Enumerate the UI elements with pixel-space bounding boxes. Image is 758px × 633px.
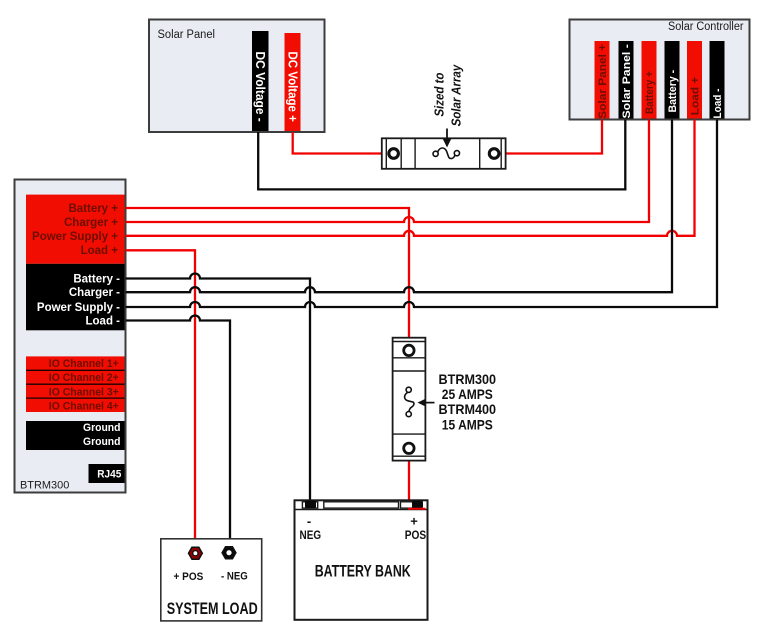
- battery NEG terminal: [305, 501, 316, 509]
- svg-text:Load -: Load -: [86, 316, 121, 328]
- battery POS terminal: [412, 501, 423, 509]
- BTRM negative terminal block: [26, 264, 125, 331]
- wire: BTRM Power Supply+ to controller Load+: [126, 120, 695, 236]
- svg-text:Solar Array: Solar Array: [449, 63, 464, 127]
- BTRM positive terminal block: [26, 195, 125, 264]
- svg-text:IO Channel 4+: IO Channel 4+: [49, 400, 119, 412]
- wire: panel DC- to controller Solar Panel -: [258, 120, 625, 190]
- svg-text:Battery -: Battery -: [73, 274, 120, 286]
- wire: BTRM Charger+ to controller Battery+: [126, 120, 650, 223]
- svg-text:Solar Panel -: Solar Panel -: [621, 44, 633, 119]
- svg-text:NEG: NEG: [300, 530, 322, 542]
- wire: BTRM Charger- to controller Battery-: [126, 120, 673, 293]
- BTRM300 unit box: [15, 180, 126, 493]
- svg-text:Solar Controller: Solar Controller: [668, 21, 744, 33]
- svg-text:BTRM400: BTRM400: [439, 401, 497, 417]
- svg-text:Solar Panel: Solar Panel: [158, 29, 216, 41]
- svg-text:Ground: Ground: [83, 436, 121, 448]
- terminal bar DC Voltage +: [285, 33, 301, 131]
- battery bank: [295, 500, 428, 620]
- fuse F1 solar array fuse: [382, 138, 506, 169]
- svg-text:+ POS: + POS: [174, 571, 204, 583]
- svg-text:Power Supply -: Power Supply -: [37, 302, 120, 314]
- system load: [161, 539, 262, 621]
- svg-text:Battery +: Battery +: [68, 203, 118, 215]
- svg-text:POS: POS: [405, 530, 427, 542]
- label: BTRM300 25 AMPS BTRM400 15 AMPS: [418, 371, 497, 432]
- svg-text:Ground: Ground: [83, 422, 121, 434]
- svg-text:RJ45: RJ45: [97, 469, 121, 481]
- wire: BTRM Power Supply- to controller Load-: [126, 120, 718, 308]
- solar controller box: [570, 20, 750, 120]
- terminal bar Solar Panel +: [595, 41, 610, 119]
- svg-text:Sized to: Sized to: [432, 71, 447, 117]
- svg-text:BATTERY BANK: BATTERY BANK: [315, 563, 411, 581]
- svg-text:Battery +: Battery +: [644, 71, 656, 114]
- svg-text:BTRM300: BTRM300: [20, 480, 69, 492]
- terminal bar Load +: [687, 41, 702, 119]
- svg-text:- NEG: - NEG: [221, 571, 248, 583]
- wire: fuse to controller Solar Panel +: [506, 120, 602, 154]
- terminal bar DC Voltage -: [252, 31, 269, 131]
- svg-text:IO Channel 2+: IO Channel 2+: [49, 372, 119, 384]
- solar panel box: [149, 20, 325, 133]
- svg-text:-: -: [307, 514, 311, 529]
- terminal bar Battery +: [642, 41, 657, 119]
- svg-text:IO Channel 3+: IO Channel 3+: [49, 386, 119, 398]
- terminal bar Battery -: [665, 41, 680, 119]
- fuse F2 battery fuse: [393, 338, 426, 461]
- wire: BTRM Load+ to system load POS: [126, 250, 196, 547]
- RJ45 port: [89, 464, 125, 483]
- system load NEG terminal: [222, 547, 236, 559]
- terminal bar Load -: [710, 41, 725, 119]
- BTRM ground block: [26, 421, 125, 450]
- svg-text:Load +: Load +: [81, 245, 119, 257]
- wire: panel DC+ to fuse: [293, 132, 382, 154]
- wire: BTRM Load- to system load NEG: [126, 316, 231, 548]
- svg-text:SYSTEM LOAD: SYSTEM LOAD: [167, 600, 258, 618]
- system load POS terminal: [189, 547, 203, 559]
- svg-text:15 AMPS: 15 AMPS: [442, 416, 493, 432]
- svg-text:Charger +: Charger +: [64, 217, 118, 229]
- svg-text:DC Voltage -: DC Voltage -: [253, 52, 267, 122]
- svg-text:DC Voltage +: DC Voltage +: [286, 52, 300, 122]
- svg-text:IO Channel 1+: IO Channel 1+: [49, 358, 119, 370]
- svg-text:+: +: [410, 514, 418, 529]
- label: Sized to Solar Array: [432, 63, 464, 148]
- svg-text:Charger -: Charger -: [69, 287, 120, 299]
- svg-text:25 AMPS: 25 AMPS: [442, 386, 493, 402]
- terminal bar Solar Panel -: [619, 41, 634, 119]
- BTRM IO channel block: [26, 356, 125, 412]
- svg-text:BTRM300: BTRM300: [439, 371, 497, 387]
- wire: BTRM Battery+ to battery fuse: [126, 208, 410, 338]
- svg-text:Solar Panel +: Solar Panel +: [597, 43, 609, 118]
- wire: battery fuse to battery bank POS: [408, 461, 410, 508]
- wire: BTRM Battery- to battery bank NEG: [126, 274, 311, 505]
- svg-text:Load -: Load -: [712, 88, 724, 118]
- svg-text:Load +: Load +: [690, 77, 702, 116]
- svg-text:Battery -: Battery -: [667, 70, 679, 113]
- svg-text:Power Supply +: Power Supply +: [32, 231, 118, 243]
